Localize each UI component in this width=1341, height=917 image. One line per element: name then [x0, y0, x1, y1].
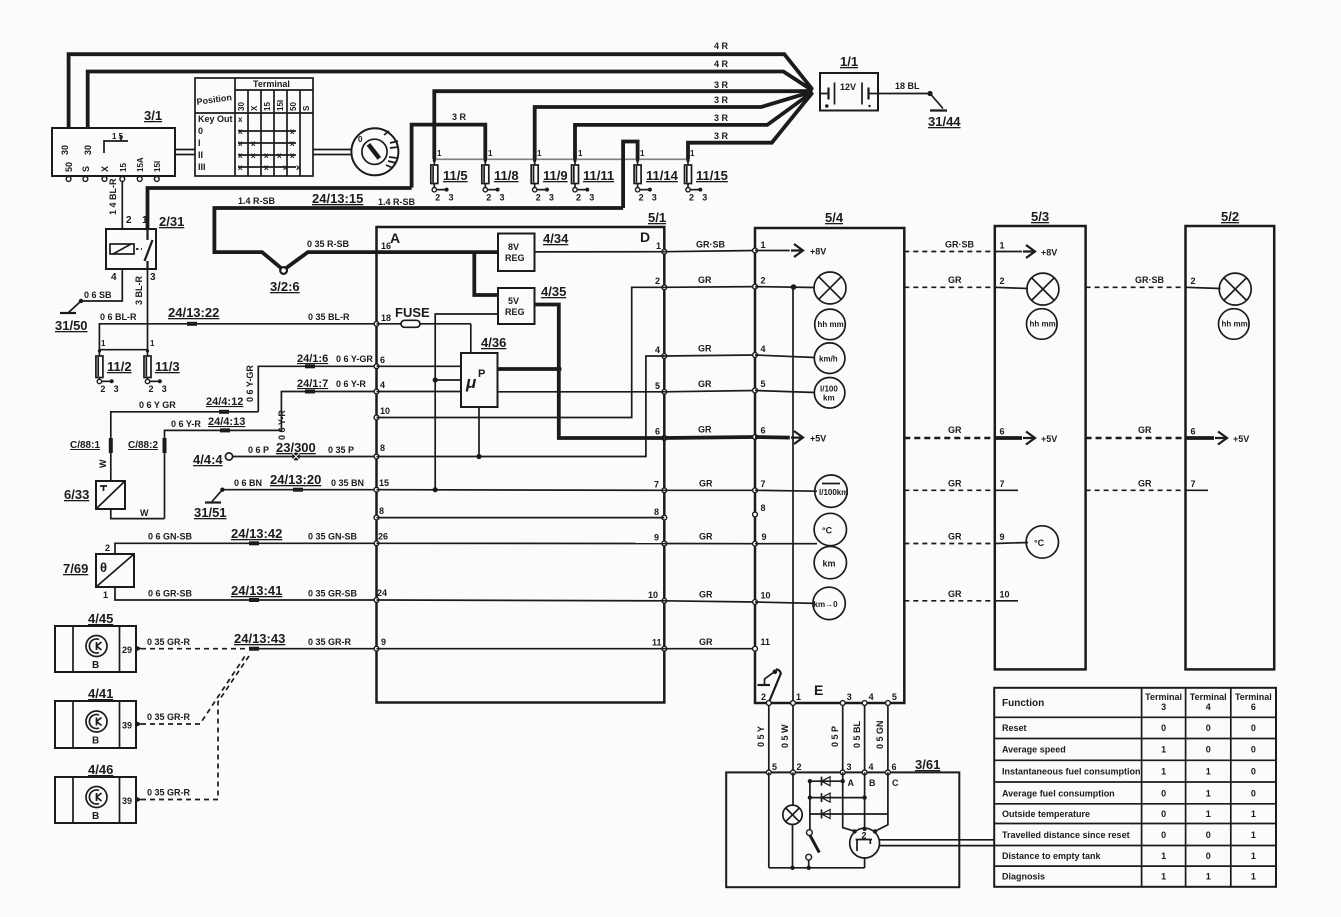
svg-text:8: 8: [761, 503, 766, 513]
connector C/88:2: [128, 438, 165, 519]
wire to uP left: [435, 379, 461, 381]
svg-text:5/3: 5/3: [1031, 209, 1049, 224]
svg-text:°C: °C: [822, 526, 833, 536]
splice 24/4:13 bar: [220, 428, 230, 432]
5/4 bottom pin 3: [840, 692, 851, 705]
wire 1.4 BL-R from 3/1 to relay pin 2: [121, 181, 123, 229]
svg-text:1: 1: [1206, 809, 1211, 819]
svg-text:Key Out: Key Out: [198, 114, 233, 124]
junction dot on 5V rail: [556, 366, 562, 372]
svg-text:3 R: 3 R: [714, 113, 729, 123]
table row Instantaneous fuel consumption: [1002, 767, 1256, 777]
svg-text:4: 4: [111, 272, 117, 283]
svg-text:1/1: 1/1: [840, 54, 858, 69]
svg-text:x: x: [251, 139, 256, 148]
svg-text:8V: 8V: [508, 242, 519, 252]
relay 2/31 coil: [110, 244, 134, 254]
splice 24/13:42 bar: [249, 541, 259, 545]
wire 5/1 pin9 to 5/4 pin9 GR: [664, 543, 755, 545]
wire pin 9 row to right pin 11: [377, 648, 665, 650]
5/4 left pin labels: [761, 240, 771, 647]
battery 1/1 box: [820, 73, 878, 111]
svg-text:B: B: [92, 660, 99, 671]
wire 0.5 BL from 5/4 pin4 to 3/61 pin4: [864, 705, 866, 772]
svg-text:11: 11: [761, 637, 771, 647]
svg-text:x: x: [238, 139, 243, 148]
svg-text:km/h: km/h: [819, 355, 838, 364]
svg-text:3: 3: [549, 193, 554, 203]
svg-text:1: 1: [578, 149, 583, 158]
relay 2/31 box: [106, 229, 156, 269]
svg-text:31/51: 31/51: [194, 505, 227, 520]
svg-text:GR·SB: GR·SB: [1135, 275, 1165, 285]
5/4 km/h gauge: [755, 343, 845, 374]
3/61 lamp column lower: [792, 825, 794, 868]
svg-text:X: X: [100, 166, 110, 172]
svg-text:11/15: 11/15: [696, 168, 728, 183]
svg-text:Distance to empty tank: Distance to empty tank: [1002, 851, 1102, 861]
svg-text:4/4:4: 4/4:4: [193, 452, 223, 467]
rotary switch to bus: [864, 858, 866, 868]
wire 3R to fuse 11/15: [688, 93, 813, 160]
svg-text:x: x: [238, 163, 243, 172]
bulb 4/46 box: [55, 777, 142, 823]
svg-text:hh mm: hh mm: [818, 320, 844, 329]
svg-text:3/2:6: 3/2:6: [270, 279, 300, 294]
3/1 internal 15 bracket: [104, 135, 128, 153]
svg-text:x: x: [264, 151, 269, 160]
fuse symbol in 5/1: [377, 320, 471, 327]
wire 5V REG output thick to right pin 6: [535, 305, 665, 439]
svg-text:24/4:12: 24/4:12: [206, 396, 243, 408]
svg-text:4/46: 4/46: [88, 762, 113, 777]
5/4 reset switch near pin 2: [758, 669, 781, 702]
wire pin 10 row to right pin 2: [377, 287, 665, 417]
svg-text:GR: GR: [698, 344, 712, 354]
svg-text:0 5 P: 0 5 P: [830, 726, 840, 747]
wire 0.35 GR-R dashed from 4/46: [141, 653, 251, 800]
svg-text:I: I: [198, 138, 201, 148]
ground 31/50: [55, 313, 88, 333]
table row Reset: [1002, 723, 1256, 733]
3/61 pin labels: [772, 762, 897, 772]
svg-text:0 6 Y-R: 0 6 Y-R: [277, 410, 287, 440]
svg-text:hh mm: hh mm: [1030, 320, 1056, 329]
svg-text:GR·SB: GR·SB: [696, 240, 726, 250]
3/61 bottom bus: [769, 867, 865, 869]
feed for fuse 11/14 from 24/13:15 line: [623, 142, 638, 209]
svg-text:X: X: [250, 105, 259, 111]
svg-text:4/35: 4/35: [541, 284, 566, 299]
svg-text:9: 9: [762, 532, 767, 542]
wire 24/1:6 0.6 Y-GR to 5/1 pin 6: [258, 366, 376, 412]
wire relay feed to 3R bracket: [148, 188, 412, 228]
svg-text:μ: μ: [465, 373, 477, 392]
svg-text:29: 29: [122, 645, 132, 655]
svg-text:1: 1: [1000, 241, 1005, 251]
svg-text:11: 11: [652, 638, 662, 648]
svg-text:1: 1: [1206, 872, 1211, 882]
svg-text:A: A: [848, 778, 855, 788]
wire dashed GR 5/3 to 5/2 pin7: [1086, 489, 1186, 491]
svg-text:C/88:2: C/88:2: [128, 440, 158, 451]
5/3 hh mm gauge: [1027, 309, 1058, 340]
svg-text:D: D: [640, 229, 650, 245]
svg-text:2: 2: [100, 384, 105, 394]
svg-text:1: 1: [437, 149, 442, 158]
svg-text:0 35 GR-R: 0 35 GR-R: [147, 712, 191, 722]
svg-text:18 BL: 18 BL: [895, 81, 920, 91]
svg-text:Terminal: Terminal: [1145, 692, 1182, 702]
table row Distance to empty tank: [1002, 851, 1256, 861]
svg-text:3: 3: [150, 272, 156, 283]
3/61 B column into rotary: [864, 772, 866, 828]
svg-text:x: x: [251, 151, 256, 160]
svg-text:+8V: +8V: [1041, 248, 1057, 258]
svg-text:0: 0: [1161, 789, 1166, 799]
svg-text:0 5 GN: 0 5 GN: [875, 720, 885, 749]
splice 24/1:7 bar: [305, 390, 315, 394]
svg-text:1: 1: [1161, 851, 1166, 861]
wire pin 15 row to right pin 7: [377, 489, 665, 492]
connector C/88:1: [70, 438, 111, 481]
splice 24/13:43 bar: [249, 647, 259, 651]
svg-text:9: 9: [381, 637, 386, 647]
svg-text:GR: GR: [1138, 425, 1152, 435]
wire 5/1 pin10 to 5/4 pin10 GR: [664, 601, 755, 602]
function table frame: [994, 688, 1276, 887]
svg-text:0: 0: [1251, 723, 1256, 733]
table column dividers: [248, 90, 300, 176]
3/61 A column into rotary: [843, 772, 855, 831]
svg-text:x: x: [290, 139, 295, 148]
wire pin 26 row to right pin 9: [377, 542, 665, 544]
wire 0.35 GR-R dashed from 4/45: [141, 648, 250, 650]
svg-text:2: 2: [105, 543, 110, 553]
5/1 right pin circles: [662, 249, 667, 651]
svg-text:S: S: [81, 166, 91, 172]
svg-text:0 5 BL: 0 5 BL: [852, 720, 862, 748]
svg-text:4 R: 4 R: [714, 59, 729, 69]
svg-text:1: 1: [101, 339, 106, 348]
diode D3 row: [810, 810, 888, 819]
5/4 left pin circles: [753, 248, 758, 651]
wire 0.35 GR-R dashed from 4/41: [141, 653, 247, 724]
5/4 bottom pin 2: [761, 692, 771, 705]
5/4 lamp symbol: [814, 272, 846, 304]
svg-text:x: x: [296, 163, 301, 172]
fuse strip thin line: [434, 158, 688, 160]
5/3 pin7 stub: [995, 489, 1018, 491]
wire 0.6 BL-R 24/13:22 to 5/1 pin 18: [99, 324, 376, 350]
svg-text:2: 2: [486, 193, 491, 203]
rotary selector switch: [850, 828, 880, 858]
5/2 pin6 +5V arrow: [1186, 432, 1250, 445]
fuse 11/14: [634, 149, 678, 203]
svg-text:11/14: 11/14: [646, 168, 679, 183]
svg-text:11/11: 11/11: [583, 168, 614, 183]
svg-text:km→0: km→0: [814, 600, 839, 609]
svg-text:2: 2: [536, 193, 541, 203]
svg-text:Function: Function: [1002, 698, 1044, 709]
wire 4R upper from 3/1 terminal 30 to battery: [69, 54, 813, 128]
svg-text:1: 1: [142, 215, 148, 226]
svg-text:7/69: 7/69: [63, 561, 88, 576]
wire dashed GR 5/4 to 5/3 pin9: [904, 543, 995, 545]
svg-text:0 35 BL-R: 0 35 BL-R: [308, 312, 350, 322]
svg-text:1: 1: [1161, 767, 1166, 777]
5/4 hh mm gauge: [815, 309, 846, 340]
svg-text:6: 6: [1251, 702, 1256, 712]
svg-text:24/13:15: 24/13:15: [312, 191, 363, 206]
svg-text:0 6 Y-R: 0 6 Y-R: [171, 419, 201, 429]
svg-text:P: P: [478, 368, 485, 380]
wire 5/1 pin5 to 5/4 pin5 GR: [664, 391, 755, 392]
svg-text:3: 3: [1161, 702, 1166, 712]
svg-text:Reset: Reset: [1002, 723, 1027, 733]
svg-text:x: x: [238, 115, 243, 124]
fuse 11/3: [144, 339, 180, 394]
battery plates and 12V: [820, 82, 878, 108]
5/3 degC gauge: [995, 526, 1059, 558]
svg-text:GR: GR: [948, 532, 962, 542]
svg-text:15: 15: [379, 478, 389, 488]
svg-text:0 6 Y-GR: 0 6 Y-GR: [245, 365, 255, 402]
svg-text:24/4:13: 24/4:13: [208, 416, 245, 428]
3/61 lamp column upper: [792, 772, 794, 805]
fuse 11/8: [482, 149, 519, 203]
svg-text:3 R: 3 R: [714, 131, 729, 141]
svg-text:2: 2: [435, 193, 440, 203]
svg-text:0 35 GR-R: 0 35 GR-R: [147, 788, 191, 798]
svg-text:10: 10: [761, 591, 771, 601]
svg-text:hh mm: hh mm: [1222, 320, 1248, 329]
svg-text:Terminal: Terminal: [1235, 692, 1272, 702]
svg-text:0 6 GN-SB: 0 6 GN-SB: [148, 532, 193, 542]
svg-text:11/9: 11/9: [543, 168, 568, 183]
svg-text:1: 1: [656, 241, 661, 251]
svg-text:0: 0: [1206, 745, 1211, 755]
svg-text:24/13:43: 24/13:43: [234, 631, 285, 646]
svg-text:0 6 Y-GR: 0 6 Y-GR: [336, 354, 373, 364]
svg-text:31/44: 31/44: [928, 114, 961, 129]
svg-text:GR: GR: [699, 479, 713, 489]
svg-text:6: 6: [892, 762, 897, 772]
5/3 pin6 +5V arrow: [995, 432, 1057, 445]
sensor 6/33 box: [96, 481, 125, 509]
5/2 pin7 stub: [1186, 489, 1209, 491]
svg-text:θ: θ: [100, 560, 107, 575]
svg-text:Diagnosis: Diagnosis: [1002, 872, 1045, 882]
svg-text:6: 6: [1191, 427, 1196, 437]
5/3 pin labels: [1000, 241, 1010, 600]
svg-text:18: 18: [381, 313, 391, 323]
svg-text:11/2: 11/2: [107, 359, 132, 374]
wire 4R lower from 3/1 terminal 30 to battery: [88, 72, 813, 129]
table row Average speed: [1002, 745, 1256, 755]
svg-text:10: 10: [1000, 590, 1010, 600]
table row Outside temperature: [1002, 809, 1256, 819]
svg-text:3: 3: [847, 762, 852, 772]
svg-text:Travelled distance since reset: Travelled distance since reset: [1002, 830, 1130, 840]
control unit 5/1 box: [377, 227, 665, 703]
link table to key double line: [313, 150, 352, 155]
table row Average fuel consumption: [1002, 789, 1256, 799]
svg-text:1 5: 1 5: [112, 132, 124, 141]
splice 24/1:6 bar: [305, 364, 315, 368]
svg-text:3 R: 3 R: [714, 80, 729, 90]
svg-text:+5V: +5V: [1041, 434, 1057, 444]
svg-text:GR: GR: [699, 590, 713, 600]
svg-text:2: 2: [655, 276, 660, 286]
table row labels: [198, 114, 233, 172]
wire uP right thick to 5V rail: [498, 367, 559, 371]
svg-text:GR: GR: [1138, 479, 1152, 489]
svg-text:15: 15: [119, 163, 128, 172]
splice 3/2:6 connector: [270, 252, 377, 294]
svg-text:10: 10: [380, 406, 390, 416]
svg-text:5: 5: [892, 692, 897, 702]
wire from 6/33 to C/88:2: [111, 509, 165, 519]
splice 24/13:22 bar: [187, 322, 197, 326]
svg-text:0 6 SB: 0 6 SB: [84, 290, 112, 300]
relay 2/31 dashed actuator link: [136, 248, 142, 250]
wire 5/1 pin2 to 5/4 pin2 GR: [664, 286, 755, 289]
svg-text:x: x: [283, 163, 288, 172]
wire 24/1:7 0.6 Y-R to 5/1 pin 4: [281, 392, 376, 431]
diode D2 row: [808, 793, 867, 802]
wire 0.6 GR-SB 24/13:41 to 5/1 pin 24: [115, 587, 377, 600]
table column labels rotated: [237, 100, 311, 111]
svg-text:S: S: [302, 105, 311, 111]
wire 0.6 SB relay pin 4 to ground: [68, 269, 122, 313]
table row connection lines: [238, 131, 296, 167]
splice 23/300: [276, 440, 316, 461]
svg-text:+5V: +5V: [810, 434, 826, 444]
junction dot on pin15 line: [433, 487, 438, 492]
svg-text:A: A: [390, 230, 400, 246]
svg-text:3: 3: [702, 193, 707, 203]
svg-text:4: 4: [655, 345, 660, 355]
wire 5/1 pin 6 row to uP: [377, 365, 462, 367]
svg-text:5: 5: [655, 381, 660, 391]
3/61 pin5 column to bus: [768, 772, 770, 867]
svg-text:0 6 P: 0 6 P: [248, 445, 269, 455]
5/2 pin labels: [1191, 276, 1196, 489]
svg-text:1: 1: [488, 149, 493, 158]
svg-text:1.4 R-SB: 1.4 R-SB: [238, 196, 276, 206]
splice 24/4:12 bar: [219, 410, 229, 414]
svg-text:REG: REG: [505, 307, 525, 317]
wire 3R to fuse 11/11: [575, 92, 813, 159]
svg-text:3/1: 3/1: [144, 108, 162, 123]
svg-text:0: 0: [358, 135, 363, 144]
wire dashed GR-SB 5/4 to 5/3 pin1: [904, 251, 995, 253]
wire 0.5 GN from 5/4 pin5 to 3/61 pin6: [887, 705, 889, 772]
svg-text:4: 4: [869, 692, 874, 702]
junction dot uP left feed: [433, 377, 438, 382]
svg-text:30: 30: [83, 145, 93, 155]
svg-text:1: 1: [150, 339, 155, 348]
svg-text:26: 26: [378, 532, 388, 542]
wire 0.5 P from 5/4 pin3 to 3/61 pin3: [842, 705, 844, 772]
svg-text:24: 24: [377, 588, 387, 598]
svg-text:3 R: 3 R: [452, 112, 467, 122]
svg-text:1.4 R-SB: 1.4 R-SB: [378, 197, 416, 207]
svg-text:0: 0: [1206, 830, 1211, 840]
svg-text:3: 3: [162, 384, 167, 394]
regulator 4/34 8V REG box: [498, 234, 535, 272]
wire 5/1 pin 4 row to uP: [377, 391, 462, 393]
wire dot at 0.6 SB: [79, 299, 83, 303]
ignition position table frame: [195, 78, 313, 176]
wire 5/1 pin11 to 5/4 pin11 GR: [664, 648, 755, 650]
junction dot uP bottom: [476, 454, 481, 459]
5/4 bottom pin 1: [791, 692, 801, 705]
svg-text:9: 9: [1000, 532, 1005, 542]
svg-text:11/8: 11/8: [494, 168, 519, 183]
svg-text:0: 0: [198, 126, 203, 136]
svg-text:0 35 GR-SB: 0 35 GR-SB: [308, 589, 358, 599]
3/61 diode rail: [809, 781, 811, 830]
5/4 internal vertical from pin2 to bottom pin 1: [792, 287, 794, 703]
svg-text:E: E: [814, 682, 823, 698]
wire 0.6 Y GR row: [111, 412, 258, 440]
svg-text:30: 30: [60, 145, 70, 155]
svg-text:1: 1: [1206, 789, 1211, 799]
svg-text:GR: GR: [948, 425, 962, 435]
svg-text:2: 2: [126, 215, 132, 226]
ignition key symbol: [351, 128, 398, 175]
svg-text:x: x: [238, 127, 243, 136]
svg-text:Instantaneous fuel consumption: Instantaneous fuel consumption: [1002, 767, 1141, 777]
svg-text:GR·SB: GR·SB: [945, 240, 975, 250]
link 3/1 to table double line: [175, 150, 195, 155]
svg-text:4: 4: [761, 344, 766, 354]
wire pin 24 row to right pin 10: [377, 599, 665, 602]
wire junction dot at 18 BL: [927, 91, 932, 96]
svg-text:39: 39: [122, 796, 132, 806]
svg-text:7: 7: [654, 480, 659, 490]
svg-text:Average speed: Average speed: [1002, 745, 1066, 755]
svg-text:31/50: 31/50: [55, 318, 88, 333]
svg-text:1: 1: [640, 149, 645, 158]
svg-text:0: 0: [1206, 851, 1211, 861]
svg-text:4: 4: [869, 762, 874, 772]
5/1 right pin labels: [648, 241, 662, 648]
svg-text:2: 2: [576, 193, 581, 203]
wire uP bottom to pin 8 row: [478, 407, 480, 457]
regulator 4/35 5V REG box: [498, 288, 535, 324]
svg-text:+5V: +5V: [1233, 434, 1249, 444]
svg-text:0: 0: [1251, 789, 1256, 799]
svg-text:15: 15: [263, 102, 272, 111]
svg-text:3: 3: [652, 193, 657, 203]
svg-text:GR: GR: [698, 379, 712, 389]
microprocessor 4/36 box: [461, 353, 498, 407]
svg-text:8: 8: [380, 443, 385, 453]
svg-text:0 35 GR-R: 0 35 GR-R: [308, 637, 352, 647]
svg-text:III: III: [198, 162, 206, 172]
svg-text:15A: 15A: [136, 157, 145, 172]
svg-text:3: 3: [114, 384, 119, 394]
svg-text:24/13:41: 24/13:41: [231, 583, 282, 598]
svg-text:C: C: [892, 778, 899, 788]
wire 3R to fuse 11/9: [535, 92, 813, 160]
wire 4/4:4 0.6 P to 23/300 to 5/1 pin 8: [193, 445, 377, 467]
svg-text:B: B: [869, 778, 876, 788]
svg-text:30: 30: [237, 102, 246, 111]
